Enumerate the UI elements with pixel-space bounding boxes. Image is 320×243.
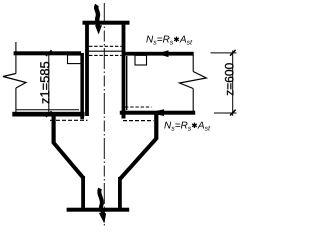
force arrowhead Ns bottom (pointing left) (149, 109, 165, 116)
joint thin solid line (85, 50, 125, 52)
hidden dashed line below left flange (50, 119, 88, 121)
neck left wall (81, 176, 85, 209)
dimension z=600 extension bottom (214, 112, 237, 114)
hidden dashed line below right flange (123, 120, 154, 122)
column right wall (122, 24, 126, 119)
beam left end vertical upper segment (15, 53, 17, 74)
break line right zigzag (180, 72, 207, 89)
dimension z1=585 text (40, 62, 49, 104)
force arrow N bottom (wavy, pointing down) (99, 189, 103, 215)
force arrow N top (wavy, pointing down) (96, 5, 98, 27)
label Ns=Rs*Ast top (146, 36, 192, 45)
break line left zigzag (3, 74, 26, 89)
right gap hook below flange (122, 115, 126, 119)
beam right end edge (126, 56, 127, 110)
label Ns=Rs*Ast bottom (164, 122, 210, 131)
joint hidden line top dashed (89, 45, 122, 47)
dimension z1 tick top (46, 50, 52, 56)
beam left top flange (14, 51, 82, 55)
beam left end vertical lower segment (15, 88, 17, 112)
dimension z tick top (230, 50, 236, 56)
left gap hook below flange (80, 116, 84, 119)
beam left end vertical above flange (15, 42, 17, 53)
centerline vertical axis (103, 3, 105, 228)
funnel left diagonal (53, 143, 83, 178)
funnel left wall (52, 116, 56, 144)
column left wall (85, 24, 89, 116)
beam left bottom flange (12, 112, 84, 117)
dimension z1=585 line (48, 53, 50, 114)
dimension z=600 text (225, 63, 234, 95)
force arrowhead Ns top (pointing left) (157, 50, 169, 57)
joint hidden line lower dashed (89, 54, 122, 56)
beam right bottom flange (120, 111, 195, 115)
dimension z tick bottom (230, 110, 236, 116)
funnel right wall (154, 114, 158, 140)
beam right end vertical upper segment (192, 55, 194, 72)
beam left bearing plate rectangle (68, 55, 82, 64)
beam right bearing plate rectangle (135, 55, 147, 65)
column top flange (83, 21, 130, 25)
funnel right diagonal (120, 139, 156, 179)
beam left inner thin line (16, 109, 79, 111)
beam left end edge (80, 53, 84, 119)
beam right top flange with force line (125, 52, 194, 56)
neck right wall (118, 177, 122, 209)
dimension z=600 extension top (211, 52, 237, 54)
dimension z1 tick bottom (46, 111, 52, 117)
base line (67, 208, 130, 212)
beam right end vertical lower segment (192, 89, 194, 112)
dimension z=600 line (232, 51, 234, 116)
beam right hidden inner line dashed (125, 106, 152, 108)
